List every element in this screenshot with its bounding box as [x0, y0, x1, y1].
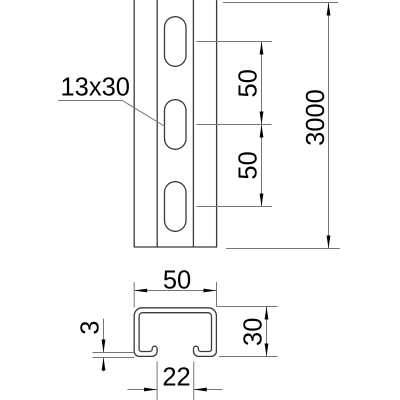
extension line 22 opening left	[156, 362, 158, 400]
dimension line 22 right tail (horizontal)	[194, 389, 223, 391]
arrowhead up at section top	[265, 307, 269, 320]
svg-text:50: 50	[163, 266, 191, 294]
arrowhead right at opening left edge	[144, 388, 157, 392]
arrowhead up at thickness bottom	[102, 358, 106, 371]
extension line 50 width left	[133, 282, 135, 308]
arrowhead down at thickness top	[102, 340, 106, 353]
dimension line 50 pitch (vertical)	[261, 42, 263, 207]
arrowhead right at channel right	[204, 289, 217, 293]
extension line rail top (3000)	[223, 2, 338, 4]
extension line thickness bottom	[93, 357, 135, 359]
extension line 30 height bottom	[219, 356, 278, 358]
slot 2 (13x30 oblong hole)	[165, 100, 187, 150]
dimension line 3 lower tail (vertical)	[103, 358, 105, 372]
slot 3 (13x30 oblong hole)	[165, 182, 187, 232]
extension line rail bottom (3000)	[226, 248, 340, 250]
dimension line 3000 (vertical)	[328, 3, 330, 249]
svg-text:50: 50	[234, 69, 262, 97]
dimension line 50 width (horizontal)	[134, 290, 216, 292]
extension line 30 height top	[217, 306, 278, 308]
arrowhead down at section bottom	[265, 344, 269, 357]
arrowhead up below slot2 center	[260, 125, 264, 138]
svg-text:3000: 3000	[302, 89, 330, 146]
arrowhead down above slot2 center	[260, 112, 264, 125]
extension line slot3 center	[197, 206, 272, 208]
arrowhead left at channel left	[134, 289, 147, 293]
arrowhead down at slot3 center	[260, 194, 264, 207]
extension line 22 opening right	[193, 362, 195, 400]
extension line 50 width right	[216, 282, 218, 307]
extension line slot2 center	[197, 124, 272, 126]
arrowhead up at slot1 center	[260, 42, 264, 55]
dimension line 22 left tail (horizontal)	[128, 389, 158, 391]
svg-text:3: 3	[77, 321, 105, 335]
extension line thickness top	[93, 352, 135, 354]
rail outline (top view, C-profile rail seen from above)	[134, 0, 216, 247]
svg-text:30: 30	[240, 318, 268, 346]
slot 1 (13x30 oblong hole)	[165, 17, 187, 67]
leader line for slot label 13x30	[58, 101, 165, 127]
channel cross-section profile outline	[134, 308, 216, 357]
arrowhead down at rail bottom	[327, 236, 331, 249]
dimension line 3 upper tail (vertical)	[103, 319, 105, 353]
arrowhead left at opening right edge	[194, 388, 207, 392]
rail fold line right	[192, 0, 194, 247]
svg-text:50: 50	[234, 151, 262, 179]
svg-text:13x30: 13x30	[61, 74, 130, 102]
svg-text:22: 22	[162, 364, 190, 392]
dimension line 30 height (vertical)	[266, 307, 268, 357]
rail fold line left	[156, 0, 158, 247]
arrowhead up at rail top	[327, 3, 331, 16]
extension line slot1 center	[197, 41, 273, 43]
